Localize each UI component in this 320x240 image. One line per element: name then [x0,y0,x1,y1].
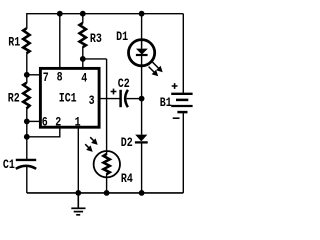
wire D1 top lead [141,14,143,40]
junction node top rail D1 [139,11,145,17]
svg-text:8: 8 [57,72,63,85]
battery B1 plate short [176,99,188,102]
LDR R4 arrow 2 shaft [85,144,90,149]
svg-text:D2: D2 [121,137,133,150]
svg-text:B1: B1 [160,97,172,110]
LDR R4 circle [94,151,120,177]
junction node C2 D1 [139,96,145,102]
wire R1 bottom to R2 top [26,53,28,83]
ground bar 2 [74,211,83,213]
svg-text:4: 4 [81,73,87,86]
wire battery top lead [182,93,184,94]
LED D1 arrow 2 shaft [149,67,156,74]
wire R4 bottom lead [106,174,108,193]
junction node pin2 C1 [24,134,30,140]
wire pin7 stub [27,74,40,76]
svg-text:1: 1 [75,117,81,130]
capacitor C2 plate flat [119,90,122,107]
wire C2 right to D1 column [127,98,142,100]
LED D1 circle [129,40,155,66]
battery plus sign [172,83,178,89]
svg-text:3: 3 [89,95,95,108]
diode D2 cathode bar [135,141,148,143]
junction node ground [75,190,81,196]
wire R3 top lead [82,14,84,24]
wire pin3 stub to C2 [100,98,119,100]
wire pin6 stub [27,120,40,122]
resistor R1 [23,28,29,53]
wire left rail upper (top corner to R1) [26,13,28,29]
svg-text:6: 6 [42,117,48,130]
ground bar 1 [71,207,85,209]
junction node top rail pin8 [57,11,63,17]
svg-text:IC1: IC1 [59,93,77,106]
LED D1 triangle [136,49,148,55]
battery B1 plate long [171,105,192,107]
wire R3 bottom to pin4 [82,47,84,68]
junction node top rail R3 [80,11,86,17]
svg-text:2: 2 [55,117,61,130]
wire R2 bottom to C1 [26,108,28,159]
battery B1 plate short bottom [177,111,187,114]
battery minus sign [173,117,180,119]
svg-text:C1: C1 [3,159,15,172]
wire pin8 column (top rail to IC) [59,14,61,68]
wire top rail [27,13,184,15]
diode D2 triangle [135,135,147,142]
battery B1 plate long top [171,93,192,95]
ground bar 3 [76,214,80,216]
wire C1 bottom to bottom rail [26,166,28,193]
wire right rail lower (battery to bottom rail) [182,113,184,193]
capacitor C2 plate curved [125,90,128,107]
wire R4 column vertical (crosses pin3 wire, no dot) [106,59,108,155]
LDR R4 arrow 1 head [91,138,98,145]
junction node D2 bottom [139,190,145,196]
junction node pin6 [24,119,30,125]
resistor R3 [80,23,86,47]
LDR R4 zigzag [104,154,110,174]
wire bottom rail [27,192,184,194]
LED D1 arrow 1 head [156,66,163,73]
svg-text:R4: R4 [121,173,133,186]
LED D1 arrow 1 shaft [153,62,160,69]
junction node R3 pin4 [80,56,86,62]
IC1 body [40,68,99,127]
wire D1 bottom to D2 [141,55,143,134]
LED D1 cathode bar [136,54,148,56]
capacitor C1 plate curved [16,166,36,169]
LDR R4 arrow 1 shaft [90,137,95,142]
wire right rail upper (top rail to battery) [182,14,184,93]
svg-text:C2: C2 [118,78,130,91]
wire pin2 jog [27,128,60,137]
junction node R4 bottom [104,190,110,196]
capacitor C2 plus sign [111,89,117,95]
svg-text:R3: R3 [90,33,102,46]
svg-text:7: 7 [43,72,49,85]
ground stem [77,193,79,208]
svg-text:R1: R1 [8,37,20,50]
LDR R4 arrow 2 head [86,145,93,152]
capacitor C1 plate flat [16,159,36,161]
wire pin1 column to ground rail [77,128,79,193]
wire R3 node to R4 column horizontal [83,58,107,60]
wire D2 bottom to bottom rail [141,142,143,193]
resistor R2 [23,83,29,109]
LED D1 arrow 2 head [152,70,159,77]
svg-text:R2: R2 [8,92,20,105]
LED D1 anode wire inside [141,40,143,49]
svg-text:D1: D1 [116,31,128,44]
junction node R1 R2 pin7 [24,72,30,78]
